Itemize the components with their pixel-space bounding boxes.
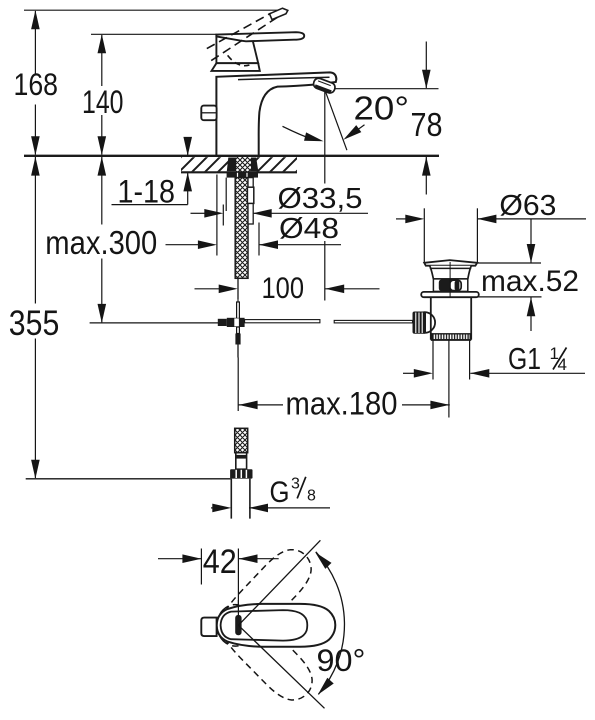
drain extension line right (Ø63) (476, 208, 478, 263)
svg-text:4: 4 (558, 355, 567, 374)
svg-text:Ø33,5: Ø33,5 (278, 183, 363, 215)
dimension 168 vertical line (34, 11, 36, 155)
faucet body (216, 72, 336, 155)
dimension Ø33,5 (191, 200, 369, 226)
dimension max.300 vertical line (101, 157, 103, 322)
hole shadow wedges (227, 158, 236, 172)
solid lever (closed position) (216, 32, 304, 41)
42 extension line to pivot (237, 600, 239, 618)
20 degree spray angle: vertical ray (324, 90, 326, 300)
drain extension line left (Ø63) (423, 208, 425, 262)
linkage knob at drain (415, 312, 436, 333)
dimension G3/8 (211, 507, 218, 509)
threaded shank (235, 178, 248, 279)
dimension 168 arrows (31, 10, 40, 29)
svg-text:G1: G1 (508, 342, 541, 376)
mounting nut (227, 172, 258, 177)
waste slotted body (433, 279, 467, 292)
hose nut (230, 469, 252, 478)
20 degree slanted ray (325, 90, 347, 150)
hub cap (212, 63, 260, 71)
svg-text:78: 78 (411, 106, 443, 143)
pop-up rod vertical (237, 302, 240, 319)
svg-text:20°: 20° (354, 89, 410, 126)
dimension 355 vertical line (34, 157, 36, 478)
dimension 100 (195, 278, 380, 300)
handle nose tab (201, 618, 216, 637)
svg-text:1-18: 1-18 (118, 174, 176, 210)
tailpipe thread (432, 334, 470, 340)
dimension G1 1/4 (403, 372, 414, 374)
90 degree ray up (238, 540, 320, 625)
lever raised position dashed hub arc (228, 55, 250, 65)
dimension Ø63 (396, 218, 406, 220)
pivot mark (235, 615, 241, 635)
lever hub (216, 35, 258, 63)
svg-text:max.180: max.180 (286, 386, 398, 422)
dimension 140 vertical line (101, 35, 103, 155)
curved flow arrow under spout (283, 126, 313, 139)
waste centre line (449, 262, 451, 297)
pop-up rod clamp (218, 319, 227, 326)
hose fitting tube (236, 453, 247, 470)
aerator (312, 77, 336, 94)
pop-up rod guide tube (248, 178, 253, 224)
waste tailpipe (431, 297, 471, 340)
horizontal linkage rod left piece (245, 320, 320, 323)
shank centre line (237, 278, 239, 302)
connection pipe G3/8 (231, 479, 250, 519)
svg-text:8: 8 (307, 487, 316, 504)
dashed handle rotated up 46 deg (208, 540, 321, 655)
handle top view inner line (221, 610, 308, 641)
svg-text:3: 3 (291, 475, 300, 492)
90 degree ray down (238, 625, 324, 708)
hose end extension line (26, 478, 231, 480)
countertop top line (24, 155, 439, 157)
svg-text:max.52: max.52 (481, 265, 579, 298)
waste flared rim (421, 292, 479, 297)
svg-text:168: 168 (14, 66, 59, 102)
waste flange (424, 260, 477, 266)
svg-text:Ø48: Ø48 (279, 213, 339, 245)
dimension 355 arrows (31, 157, 40, 176)
lever raised position dashed upper edge (207, 13, 271, 48)
countertop bottom line (181, 171, 297, 173)
supply line left of shank (225, 178, 227, 211)
svg-text:42: 42 (203, 543, 237, 581)
lever raised position dashed lower edge (211, 17, 277, 60)
pop-up rod level extension line (90, 322, 222, 324)
svg-text:max.300: max.300 (45, 224, 157, 261)
dimension max.52 (477, 262, 541, 264)
svg-text:100: 100 (262, 272, 305, 305)
waste neck (430, 266, 472, 279)
horizontal linkage rod right piece (334, 320, 412, 323)
shank through hole (236, 157, 251, 172)
handle top view outline (217, 604, 336, 647)
dimension max.300 arrows (98, 157, 107, 176)
extension line top of raised lever (168 datum) (24, 9, 283, 11)
braided supply hose (235, 428, 248, 452)
svg-text:90°: 90° (317, 642, 366, 678)
svg-text:G: G (270, 476, 290, 509)
dimension max.180 (238, 404, 283, 406)
lever raised position tip (270, 8, 288, 19)
svg-text:Ø63: Ø63 (499, 190, 556, 222)
faucet body inner top line (238, 77, 330, 79)
dimension Ø48 (217, 175, 341, 256)
svg-text:140: 140 (82, 84, 124, 120)
svg-text:355: 355 (9, 304, 60, 343)
dashed handle rotated down 46 deg (208, 595, 322, 710)
dimension 78 (334, 42, 439, 195)
dimension 42 (158, 558, 202, 560)
countertop hatched band (181, 157, 231, 171)
dimension 1-18 (112, 140, 188, 205)
dimension 140 arrows (98, 34, 107, 53)
extension line top of closed lever (140 datum) (91, 33, 217, 35)
pop-up rod lower (237, 327, 240, 334)
pop-up knob on body (201, 106, 216, 121)
leader from max.300 to Ø48 left (166, 244, 200, 246)
20 degree leader arrow (346, 125, 365, 138)
90 degree arc (316, 552, 345, 695)
